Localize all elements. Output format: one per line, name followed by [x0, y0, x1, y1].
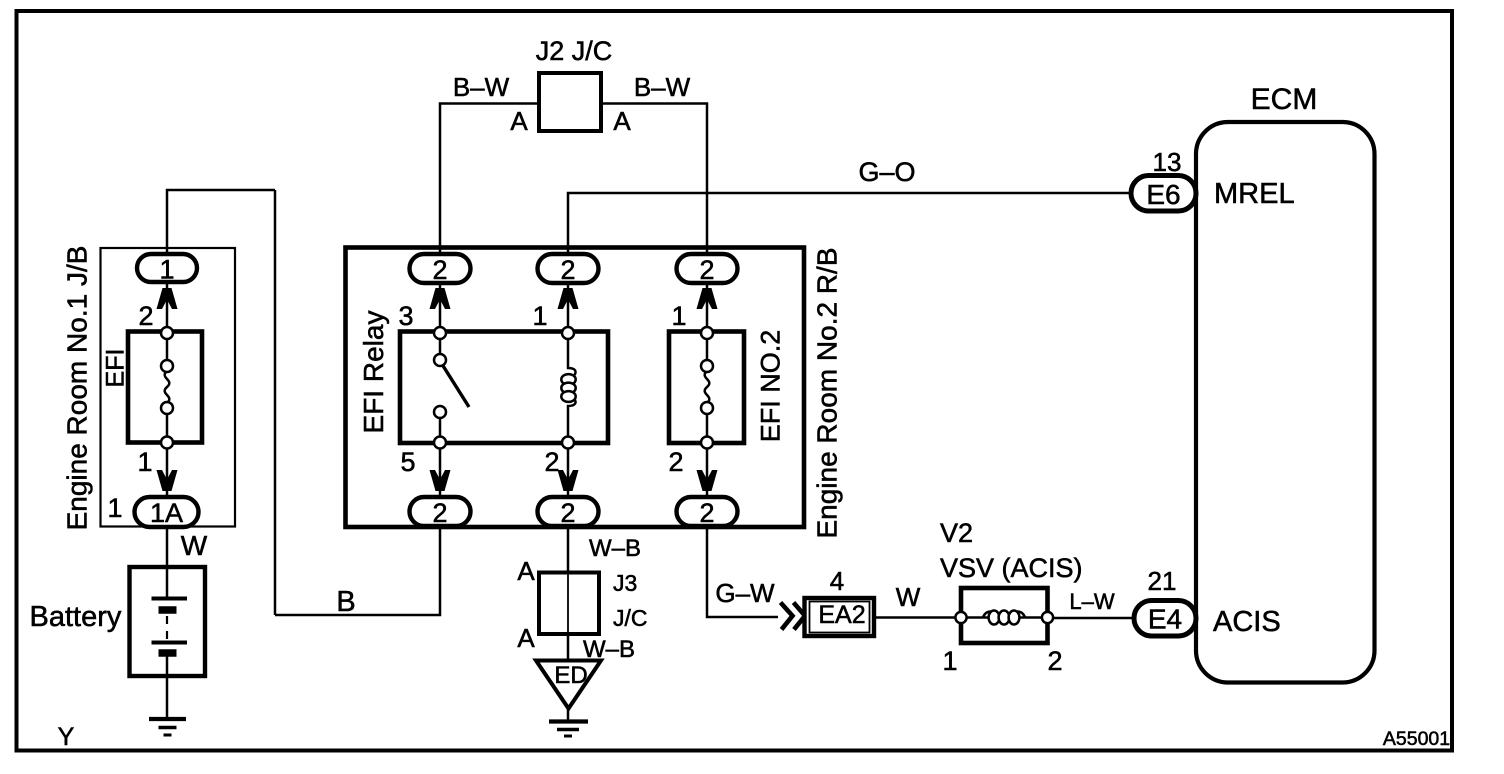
svg-text:EFI NO.2: EFI NO.2: [756, 330, 786, 443]
arrow up into EFI NO.2 top terminal: [697, 288, 718, 309]
svg-text:L–W: L–W: [1069, 589, 1114, 614]
svg-text:Engine Room No.1 J/B: Engine Room No.1 J/B: [62, 246, 93, 531]
relay EFI Relay contact: [400, 327, 608, 449]
solenoid valve V2 VSV (ACIS): [955, 588, 1053, 643]
svg-text:J2 J/C: J2 J/C: [536, 36, 613, 66]
connector E4: [1134, 601, 1196, 637]
svg-text:13: 13: [1153, 147, 1182, 177]
arrow down into relay bottom terminal: [430, 470, 451, 491]
svg-text:ACIS: ACIS: [1213, 606, 1281, 638]
svg-text:2: 2: [138, 301, 153, 331]
terminal oval 1 (J/B): [137, 254, 197, 285]
terminal oval 2 (coil top): [538, 254, 599, 285]
svg-text:E6: E6: [1146, 179, 1180, 210]
wire ED to ground symbol: [567, 708, 570, 722]
svg-text:G–O: G–O: [858, 157, 915, 187]
fuse EFI in J/B: [128, 327, 202, 449]
svg-text:2: 2: [699, 498, 714, 528]
fuse EFI NO.2: [669, 327, 744, 449]
svg-text:B–W: B–W: [634, 72, 691, 102]
wire B-W from J2 J/C right side to EFI NO.2 top terminal: [601, 104, 707, 257]
ground (battery): [149, 719, 186, 735]
wire from J/B terminal 1 up and over to B riser: [167, 190, 275, 256]
svg-text:2: 2: [560, 498, 575, 528]
svg-text:1: 1: [671, 301, 686, 331]
arrow up into terminal 1: [157, 288, 178, 309]
svg-text:ED: ED: [554, 662, 587, 689]
svg-text:21: 21: [1148, 566, 1177, 596]
svg-text:5: 5: [400, 447, 415, 477]
connector E6: [1131, 176, 1196, 212]
svg-text:A: A: [517, 623, 535, 653]
svg-text:1: 1: [532, 301, 547, 331]
terminal oval 2 (coil bottom): [538, 497, 599, 528]
svg-text:J3: J3: [613, 570, 637, 596]
wire: relay pin 5 to bottom terminal: [439, 442, 442, 497]
svg-text:2: 2: [432, 255, 447, 285]
svg-text:1: 1: [942, 646, 957, 676]
arrow up into relay top terminal: [430, 288, 451, 309]
svg-text:1: 1: [159, 255, 174, 285]
svg-text:1A: 1A: [150, 498, 183, 528]
terminal oval 2 (relay bottom): [410, 497, 471, 528]
svg-text:V2: V2: [940, 518, 973, 548]
relay box Engine Room No.2 R/B: [346, 248, 805, 528]
wire W-B: relay pin 2 terminal down to J3: [567, 526, 570, 573]
splice chevrons: [781, 603, 806, 630]
svg-text:A55001: A55001: [1383, 728, 1450, 750]
svg-text:Y: Y: [58, 723, 75, 751]
svg-text:B–W: B–W: [453, 72, 510, 102]
svg-text:1: 1: [107, 493, 122, 523]
svg-text:2: 2: [560, 255, 575, 285]
svg-text:B: B: [336, 586, 355, 618]
arrow up into coil top terminal: [558, 288, 579, 309]
wire W-B: J3 to ED ground: [567, 634, 570, 661]
svg-text:W: W: [181, 530, 208, 561]
wire J/B column: fuse to terminal 1A: [166, 442, 169, 496]
ECM block: [1196, 83, 1375, 683]
svg-text:ECM: ECM: [1251, 83, 1318, 116]
svg-text:Engine Room No.2 R/B: Engine Room No.2 R/B: [812, 247, 843, 538]
wire: relay top terminal to contact pin 3: [439, 281, 442, 334]
svg-text:4: 4: [830, 566, 844, 596]
svg-text:Battery: Battery: [30, 601, 122, 633]
svg-text:EA2: EA2: [818, 601, 865, 629]
wire W: EA2 to VSV pin 1: [875, 616, 962, 619]
svg-text:2: 2: [544, 447, 559, 477]
svg-text:J/C: J/C: [613, 605, 648, 631]
wire: fuse to EFI NO.2 bottom terminal: [706, 442, 709, 497]
svg-text:G–W: G–W: [715, 578, 775, 608]
svg-text:2: 2: [432, 498, 447, 528]
terminal oval 2 (relay top): [410, 254, 471, 285]
wire: EFI NO.2 top terminal to fuse: [706, 281, 709, 334]
svg-text:A: A: [613, 106, 631, 136]
svg-text:E4: E4: [1148, 604, 1182, 635]
junction connector J2 J/C: [536, 36, 613, 131]
wire: coil top terminal to coil: [567, 281, 570, 338]
svg-text:3: 3: [398, 301, 413, 331]
svg-text:A: A: [510, 106, 528, 136]
wire L-W: VSV pin 2 to ECM terminal E4: [1053, 617, 1134, 620]
svg-text:EFI: EFI: [102, 349, 130, 388]
svg-text:2: 2: [1047, 646, 1062, 676]
wire W from terminal 1A to battery: [166, 526, 169, 567]
junction block Engine Room No.1 J/B: [101, 248, 236, 527]
arrow down into terminal 1A: [157, 470, 178, 491]
wire battery to ground: [166, 676, 169, 719]
terminal oval 2 (EFI NO.2 bottom): [677, 497, 738, 528]
svg-text:W: W: [896, 582, 921, 612]
relay coil: [561, 327, 575, 449]
connector EA2: [805, 598, 875, 636]
arrow down into coil bottom terminal: [558, 470, 579, 491]
svg-text:2: 2: [699, 255, 714, 285]
wire J/B column: terminal 1 to fuse: [166, 281, 169, 334]
terminal oval 2 (EFI NO.2 top): [677, 254, 738, 285]
wire B-W from J2 J/C left side to EFI Relay top terminal: [440, 104, 539, 257]
svg-text:2: 2: [668, 447, 683, 477]
svg-text:VSV (ACIS): VSV (ACIS): [940, 553, 1083, 583]
svg-text:A: A: [517, 556, 535, 586]
svg-text:MREL: MREL: [1214, 178, 1295, 210]
wire: coil to bottom terminal: [567, 437, 570, 497]
wire G-W: EFI NO.2 bottom terminal to splice: [707, 526, 778, 617]
svg-text:W–B: W–B: [589, 535, 641, 562]
ground symbol (ED): [549, 722, 588, 737]
terminal oval 1A: [135, 497, 199, 528]
svg-text:1: 1: [137, 447, 152, 477]
battery: [130, 567, 206, 676]
wire B horizontal to EFI relay pin 5 terminal: [275, 526, 440, 615]
junction connector J3 J/C: [539, 573, 599, 635]
wire B riser (vertical): [274, 190, 277, 615]
arrow down into EFI NO.2 bottom terminal: [697, 470, 718, 491]
ground point ED: [536, 661, 601, 709]
svg-text:EFI Relay: EFI Relay: [358, 311, 389, 434]
wire G-O from EFI relay coil pin 1 to ECM terminal E6: [568, 193, 1131, 256]
